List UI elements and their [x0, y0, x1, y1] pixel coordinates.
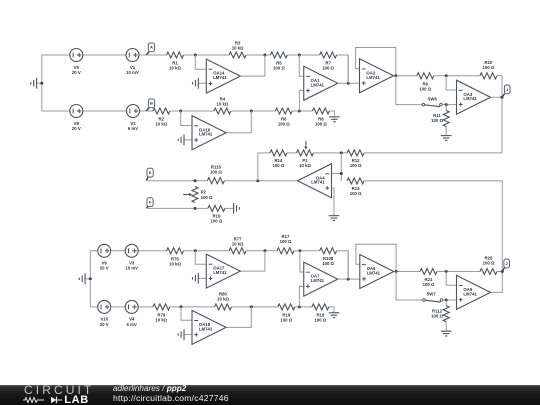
- wire to OA1 inverting input: [299, 55, 303, 76]
- svg-text:20 V: 20 V: [72, 70, 81, 75]
- node junction SW7-R112: [445, 299, 448, 302]
- wire left rail bottom: [89, 251, 91, 307]
- svg-text:10 mV: 10 mV: [126, 70, 139, 75]
- wire SW6 to OA3 + input: [442, 104, 456, 106]
- svg-text:100 Ω: 100 Ω: [482, 65, 494, 70]
- wire riser to OA4 inputs: [332, 153, 342, 181]
- node junction R76-R77: [194, 249, 197, 252]
- svg-text:10 kΩ: 10 kΩ: [155, 317, 167, 322]
- node junction OA7 out: [347, 278, 350, 281]
- wire row 4: [90, 307, 334, 313]
- wire R12 to node1 rail: [364, 152, 502, 154]
- svg-text:100 Ω: 100 Ω: [210, 219, 222, 224]
- svg-text:LM741: LM741: [311, 278, 325, 283]
- resistor R77: [229, 236, 246, 253]
- svg-text:20 V: 20 V: [72, 126, 81, 131]
- node F: [146, 198, 153, 208]
- svg-text:SW6: SW6: [428, 96, 438, 101]
- wire row F: [146, 207, 233, 209]
- svg-text:20 V: 20 V: [100, 322, 109, 327]
- resistor R11: [431, 105, 449, 136]
- node junction R5-R7: [298, 54, 301, 57]
- resistor R17: [277, 234, 294, 254]
- svg-text:E: E: [149, 170, 152, 175]
- wire OA17 output: [240, 251, 265, 271]
- node junction OA3 out: [501, 96, 504, 99]
- svg-text:LM741: LM741: [463, 291, 477, 296]
- svg-text:100 Ω: 100 Ω: [315, 122, 327, 127]
- wire row E: [146, 180, 297, 182]
- wire to OA16 inverting input: [181, 111, 192, 126]
- svg-text:LM741: LM741: [311, 180, 325, 185]
- potentiometer P2: [183, 187, 213, 203]
- node junction R9-R10: [445, 74, 448, 77]
- node junction E-R14: [256, 179, 259, 182]
- wire R20 to node2 rail: [497, 271, 502, 273]
- node 2: [502, 259, 509, 271]
- node B: [146, 99, 154, 111]
- node junction OA6 out: [395, 270, 398, 273]
- wire R21 to R20: [437, 271, 480, 273]
- potentiometer P1: [297, 141, 314, 168]
- wire R14 row: [258, 152, 347, 154]
- wire OA2 output: [394, 75, 417, 77]
- svg-text:P2: P2: [201, 190, 207, 195]
- node junction R21-R20: [445, 270, 448, 273]
- node junction OA4 inverting: [340, 172, 343, 175]
- node A: [146, 43, 154, 55]
- svg-text:100 Ω: 100 Ω: [273, 66, 285, 71]
- svg-text:100 Ω: 100 Ω: [483, 261, 495, 266]
- node junction OA1 out: [347, 82, 350, 85]
- wire R9 to R10: [434, 75, 480, 77]
- node junction node2: [501, 270, 504, 273]
- resistor R79: [153, 304, 170, 323]
- voltage source V10: [98, 300, 111, 326]
- resistor R9: [417, 73, 434, 92]
- node junction left rail bottom: [89, 277, 92, 280]
- svg-text:100 Ω: 100 Ω: [350, 191, 362, 196]
- node junction R80-R19: [250, 305, 253, 308]
- wire OA14 output: [240, 55, 265, 76]
- CircuitLab logo: [24, 385, 94, 395]
- node junction R17-R108: [298, 249, 301, 252]
- resistor R5: [270, 52, 287, 71]
- resistor R80: [215, 292, 232, 310]
- svg-text:LM741: LM741: [311, 82, 325, 87]
- node junction R1-R3: [194, 54, 197, 57]
- resistor R6: [275, 108, 292, 127]
- voltage source V5: [70, 49, 83, 75]
- wire riser to R14 row: [257, 153, 259, 181]
- node junction OA2 out: [394, 74, 397, 77]
- wire to OA5 inverting input: [446, 272, 456, 286]
- resistor R112: [431, 300, 449, 331]
- wire row A: [42, 55, 348, 83]
- op-amp OA6: [360, 255, 394, 289]
- wire OA5 output: [491, 272, 503, 293]
- wire R13 to node2 rail: [364, 181, 502, 272]
- wire to OA3 inverting input: [446, 76, 456, 90]
- svg-text:100 Ω: 100 Ω: [210, 170, 222, 175]
- node junction SW6-R11: [445, 103, 448, 106]
- wire to OA17 inverting input: [195, 251, 206, 264]
- node junction P1-R12: [340, 151, 343, 154]
- node junction R6-R8: [298, 110, 301, 113]
- node E: [146, 168, 153, 180]
- svg-text:10 mV: 10 mV: [125, 266, 138, 271]
- op-amp OA16: [192, 116, 226, 150]
- svg-text:LM741: LM741: [367, 271, 381, 276]
- svg-text:100 Ω: 100 Ω: [280, 239, 292, 244]
- svg-text:B: B: [150, 101, 153, 106]
- wire SW7 to OA5 + input: [443, 299, 457, 301]
- resistor R19: [278, 304, 295, 323]
- wire OA3 output: [491, 96, 503, 98]
- svg-text:LM741: LM741: [366, 75, 380, 80]
- voltage source V1: [126, 49, 139, 75]
- ground at R8: [329, 117, 340, 122]
- svg-text:6 mV: 6 mV: [127, 322, 137, 327]
- svg-text:6 mV: 6 mV: [128, 126, 138, 131]
- node junction E-P2: [194, 179, 197, 182]
- ground at R112: [441, 331, 452, 336]
- wire R10 to output rail: [497, 76, 502, 153]
- wire left rail top: [41, 55, 43, 111]
- resistor R18: [312, 304, 329, 323]
- node junction left rail: [40, 82, 43, 85]
- op-amp OA7: [304, 262, 338, 296]
- node junction R19-R18: [298, 305, 301, 308]
- node junction R2-R4: [179, 110, 182, 113]
- node junction R79-R80: [180, 305, 183, 308]
- svg-text:LM741: LM741: [463, 96, 477, 101]
- svg-text:100 Ω: 100 Ω: [272, 163, 284, 168]
- wire to OA7 non-inverting input: [299, 286, 303, 307]
- resistor R13: [347, 178, 364, 196]
- svg-text:LM741: LM741: [199, 132, 213, 137]
- ground G2: [79, 273, 90, 284]
- wire R108 to OA7 output: [347, 251, 349, 279]
- wire OA2 out to SW6: [396, 76, 422, 105]
- svg-text:100 Ω: 100 Ω: [314, 317, 326, 322]
- svg-text:100 Ω: 100 Ω: [201, 195, 213, 200]
- resistor R20: [480, 256, 497, 275]
- node junction R3-R5: [263, 54, 266, 57]
- svg-text:20 V: 20 V: [100, 266, 109, 271]
- svg-text:10 kΩ: 10 kΩ: [155, 122, 167, 127]
- voltage source V8: [70, 105, 83, 131]
- ground at OA17 + input: [193, 273, 207, 284]
- op-amp OA18: [192, 310, 226, 344]
- ground at R16: [234, 203, 240, 214]
- wire OA18 output: [226, 307, 251, 328]
- svg-text:100 Ω: 100 Ω: [322, 66, 334, 71]
- svg-text:10 kΩ: 10 kΩ: [169, 66, 181, 71]
- voltage source V3: [125, 244, 138, 270]
- resistor R76: [167, 248, 184, 267]
- switch SW6: [422, 96, 442, 106]
- wire OA1 output: [338, 82, 360, 84]
- resistor R10: [480, 60, 497, 79]
- wire OA6 feedback loop: [356, 244, 396, 271]
- ground at OA14 + input: [193, 78, 207, 89]
- op-amp OA5: [457, 275, 491, 309]
- svg-text:10 kΩ: 10 kΩ: [232, 241, 244, 246]
- wire to OA14 inverting input: [195, 55, 206, 69]
- node junction F-P2: [194, 207, 197, 210]
- resistor R4: [214, 97, 231, 114]
- svg-text:10 kΩ: 10 kΩ: [217, 297, 229, 302]
- svg-text:100 Ω: 100 Ω: [322, 261, 334, 266]
- voltage source V4: [125, 300, 138, 326]
- ground G1: [31, 78, 42, 89]
- svg-text:A: A: [150, 45, 153, 50]
- svg-text:100 Ω: 100 Ω: [431, 118, 443, 123]
- wire OA2 feedback loop: [356, 48, 396, 76]
- svg-text:100 Ω: 100 Ω: [280, 317, 292, 322]
- voltage source V9: [98, 244, 111, 270]
- resistor R14: [270, 150, 287, 168]
- node 1: [502, 85, 510, 97]
- svg-text:10 kΩ: 10 kΩ: [169, 261, 181, 266]
- resistor R21: [420, 269, 437, 288]
- svg-text:10 kΩ: 10 kΩ: [232, 46, 244, 51]
- ground at OA18 + input: [178, 329, 192, 340]
- resistor R1: [167, 52, 184, 71]
- wire R7 to OA1 output: [347, 55, 349, 83]
- footer bar: [0, 385, 540, 405]
- resistor R7: [320, 52, 337, 71]
- ground at R18: [329, 313, 340, 318]
- svg-text:100 Ω: 100 Ω: [350, 163, 362, 168]
- wire to OA1 non-inverting input: [299, 90, 303, 111]
- switch SW7: [423, 292, 443, 302]
- svg-text:100 Ω: 100 Ω: [423, 282, 435, 287]
- svg-text:100 Ω: 100 Ω: [278, 122, 290, 127]
- svg-text:LM741: LM741: [213, 270, 227, 275]
- wire OA4 + to ground: [332, 188, 335, 216]
- resistor R108: [320, 248, 337, 266]
- wire row 3: [90, 251, 348, 279]
- wire to OA7 inverting input: [300, 251, 304, 272]
- op-amp OA14: [206, 59, 240, 93]
- op-amp OA4: [298, 164, 332, 198]
- wire OA6 out to SW7: [396, 272, 423, 301]
- svg-text:100 Ω: 100 Ω: [419, 86, 431, 91]
- op-amp OA3: [457, 80, 491, 114]
- wire OA7 output: [338, 278, 360, 280]
- resistor R8: [312, 108, 329, 127]
- resistor R2: [153, 108, 170, 127]
- wire row B: [42, 111, 335, 117]
- ground at OA16 + input: [178, 135, 192, 146]
- svg-text:SW7: SW7: [426, 292, 436, 297]
- op-amp OA2: [360, 59, 394, 93]
- ground at R11: [441, 136, 452, 141]
- resistor R16: [208, 205, 225, 223]
- resistor R115: [207, 165, 224, 184]
- node junction R77-R17: [263, 249, 266, 252]
- resistor R12: [347, 150, 364, 168]
- op-amp OA17: [206, 254, 240, 288]
- node junction R4-R6: [250, 110, 253, 113]
- wire OA6 output: [394, 271, 420, 273]
- svg-text:10 kΩ: 10 kΩ: [216, 102, 228, 107]
- ground at OA4: [329, 216, 340, 221]
- wire to OA18 inverting input: [181, 307, 192, 320]
- wire OA16 output: [226, 111, 251, 133]
- op-amp OA1: [304, 66, 338, 100]
- svg-text:LM741: LM741: [199, 326, 213, 331]
- svg-text:10 kΩ: 10 kΩ: [299, 163, 311, 168]
- resistor R3: [229, 41, 246, 58]
- svg-text:100 Ω: 100 Ω: [431, 313, 443, 318]
- voltage source V2: [127, 105, 140, 131]
- svg-text:LM741: LM741: [213, 75, 227, 80]
